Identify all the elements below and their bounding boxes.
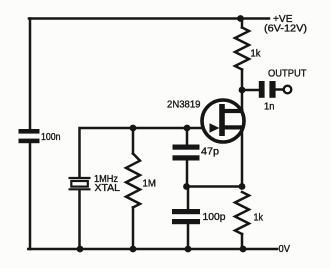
node dot ground 1M [130, 246, 137, 253]
wire drain node to output cap [242, 89, 259, 92]
node dot gate/1M [130, 125, 137, 132]
wire 100p column [187, 187, 190, 250]
transistor Q1 2N3819 circle [202, 100, 244, 142]
node dot drain/output [239, 87, 246, 94]
crystal X1 1MHz [69, 178, 91, 189]
wire top rail +VE [29, 17, 269, 20]
resistor R3 1k source (bottom) [235, 192, 249, 234]
svg-text:1k: 1k [251, 48, 262, 60]
capacitor C4 1n output plates [259, 81, 265, 98]
svg-text:1k: 1k [254, 212, 264, 224]
svg-text:2N3819: 2N3819 [167, 98, 201, 110]
wire right column drain/source [241, 19, 244, 250]
node dot ground 1k [240, 246, 247, 253]
svg-text:1M: 1M [143, 178, 157, 190]
node dot ground xtal [77, 246, 84, 253]
resistor R2 1M gate [126, 154, 140, 208]
transistor Q1 source lead [221, 125, 244, 129]
capacitor C3 100p plates [172, 209, 200, 214]
node dot gate/47p [184, 125, 191, 132]
resistor R1 1k drain (top) [235, 28, 249, 70]
svg-text:0V: 0V [279, 243, 291, 255]
wire left rail upper [29, 19, 32, 130]
svg-text:OUTPUT: OUTPUT [268, 68, 307, 80]
output terminal circle [284, 86, 292, 94]
svg-text:47p: 47p [201, 146, 219, 158]
node dot top rail [237, 15, 244, 22]
wire mid row source node [186, 185, 242, 188]
wire 47p column [186, 128, 189, 187]
wire output cap to terminal [277, 88, 284, 91]
wire bottom rail 0V [28, 248, 277, 251]
node dot ground 100p [185, 246, 192, 253]
wire 1M column [132, 128, 135, 249]
svg-text:(6V-12V): (6V-12V) [264, 24, 307, 35]
capacitor C1 100n plates [19, 129, 40, 134]
svg-text:100p: 100p [203, 211, 226, 223]
wire crystal to ground [78, 191, 81, 250]
wire left rail lower [29, 143, 32, 250]
transistor Q1 channel bar [219, 104, 225, 136]
wire gate net horizontal [80, 128, 214, 177]
node dot mid row left [183, 183, 190, 190]
transistor Q1 drain lead [221, 109, 244, 113]
transistor Q1 gate arrow [210, 123, 220, 132]
capacitor C2 47p plates [173, 145, 200, 150]
svg-text:XTAL: XTAL [95, 182, 121, 194]
node dot mid row right [239, 183, 246, 190]
svg-text:1n: 1n [264, 101, 275, 113]
svg-text:100n: 100n [41, 132, 61, 143]
